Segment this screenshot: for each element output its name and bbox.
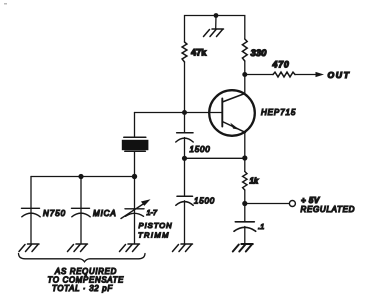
svg-text:.1: .1 [258,222,264,231]
svg-text:1-7: 1-7 [147,208,158,217]
ground (below C .1) [233,244,253,252]
svg-text:1500: 1500 [190,145,211,154]
ground (MICA) [68,244,88,252]
wire capacitor bus [31,176,135,178]
capacitor 1500 lower [176,196,193,205]
node top-rail junction [214,13,219,18]
label TRIMM [138,231,170,240]
capacitor 1500 upper [176,133,193,142]
brace under capacitor bank [19,254,146,262]
wire stub from top junction to ground [215,16,217,29]
wire C lower to ground [184,201,186,244]
wire to +5V terminal [245,203,289,205]
wire tap to emitter [185,157,245,159]
resistor 330 [242,39,247,61]
node MICA junction [78,174,83,179]
wire MICA branch [80,177,82,244]
node base junction [182,110,187,115]
wire +5V node down to C .1 [244,204,246,222]
label AS REQUIRED [54,267,117,276]
transistor Q1 circle [209,90,255,136]
wire collector node to 470 [245,74,273,76]
capacitor MICA [72,208,91,217]
wire collector lead [244,75,246,94]
svg-text:47k: 47k [191,48,207,58]
node emitter junction [242,155,247,160]
label REGULATED [301,205,356,214]
svg-text:PISTON: PISTON [139,221,173,230]
label 470 [272,60,290,70]
svg-text:330: 330 [251,48,268,59]
capacitor trimmer 1-7 [121,199,151,218]
wire C .1 to ground [244,227,246,244]
label 47k [191,48,207,58]
wire crystal bottom to cap bus [134,151,136,176]
resistor 1k [243,172,247,191]
transistor Q1 base bar [221,99,223,127]
transistor Q1 emitter stroke [222,122,245,133]
svg-text:REGULATED: REGULATED [301,205,356,214]
resistor 47k [182,42,187,62]
capacitor .1 [234,222,256,232]
node trimmer junction [132,174,137,179]
wire C upper to tap node [184,138,186,159]
svg-text:TOTAL · 32 pF: TOTAL · 32 pF [52,284,113,293]
crystal Y1 riser wire [134,113,136,137]
wire top rail [185,16,245,43]
svg-text:N750: N750 [43,209,66,218]
node +5V junction [242,201,247,206]
label 1k [250,177,259,186]
wire C 1500 lower branch [184,158,186,196]
label +5V [301,196,320,205]
ground (trimmer) [120,244,140,252]
svg-text:TO COMPENSATE: TO COMPENSATE [48,275,125,284]
label .1 [258,222,264,231]
svg-text:1k: 1k [250,177,259,186]
resistor 470 [273,72,295,77]
label HEP715 [261,108,296,117]
label 1-7 [147,208,158,217]
wire 47k bottom to base node [184,62,186,113]
node collector junction [242,72,247,77]
wire 470 to OUT arrow [295,74,318,76]
wire 1k to +5V node [244,190,246,204]
label 1500 (upper) [190,145,211,154]
node tap junction [182,156,187,161]
label TOTAL 32 pF [52,284,113,293]
label MICA [93,209,117,218]
ground (top rail) [204,29,224,37]
label PISTON [139,221,173,230]
label 1500 (lower) [194,197,215,206]
label TO COMPENSATE [48,275,125,284]
ground (below lower 1500) [173,244,193,252]
svg-text:470: 470 [272,60,290,70]
label OUT [328,70,351,80]
scan speck top-left [4,3,7,5]
label 330 [251,48,268,59]
wire N750 branch [30,177,32,244]
node OUT arrow [316,72,325,77]
crystal Y1 [122,137,149,151]
wire emitter lead down [244,132,246,171]
label N750 [43,209,66,218]
svg-text:+ 5V: + 5V [301,196,320,205]
svg-text:OUT: OUT [328,70,351,80]
svg-text:HEP715: HEP715 [261,108,296,117]
svg-text:MICA: MICA [93,209,117,218]
ground (N750) [19,244,39,252]
capacitor N750 [22,208,41,217]
wire trimmer branch [134,177,136,244]
transistor Q1 collector stroke [222,94,245,103]
wire 330 bottom to collector node [244,61,246,75]
svg-text:1500: 1500 [194,197,215,206]
svg-text:TRIMM: TRIMM [138,231,170,240]
wire base node down to C 1500 upper [184,113,186,133]
node +5V terminal circle [289,201,295,207]
wire base [135,112,223,114]
